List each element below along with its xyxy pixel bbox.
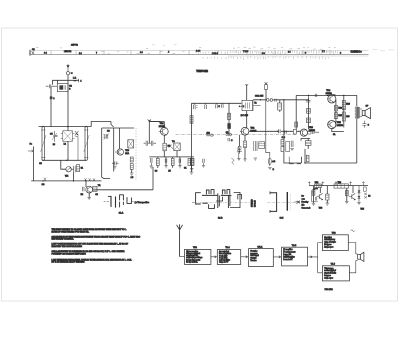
wire transformer down: [356, 119, 358, 163]
wire TR2 emitter down: [244, 135, 246, 141]
component on rail right: [364, 187, 367, 191]
svg-text:TR2: TR2: [250, 128, 255, 130]
S1-B lower rect: [216, 197, 222, 201]
antenna: [177, 224, 183, 256]
PAGE-BORDER (decorative): [2, 28, 398, 301]
wire second chain: [343, 95, 345, 127]
ground left vertical: [190, 172, 194, 174]
resistor R25: [334, 113, 337, 119]
wire inner bottom rail: [43, 159, 86, 161]
stage1 resistor: [312, 190, 315, 195]
wire input horizontal: [52, 79, 79, 81]
svg-text:TR5: TR5: [337, 122, 342, 124]
gang plate bar: [286, 192, 288, 211]
svg-text:0 4: 0 4: [44, 53, 48, 55]
diode chain ground: [357, 203, 361, 205]
resistor R31 on rail: [315, 184, 322, 188]
wire transformer to speaker: [360, 109, 362, 116]
capacitor C20: [238, 146, 240, 159]
GROUP: lower right stages: [294, 182, 370, 211]
transformer T2B on rail: [334, 184, 348, 188]
ground C14: [150, 166, 154, 168]
svg-text:0A: 0A: [333, 133, 336, 136]
mixer diode arrows: [75, 131, 79, 137]
svg-text:4-2: 4-2: [272, 161, 276, 163]
wire drop to C1: [51, 80, 53, 85]
capacitor C13: [169, 145, 173, 149]
svg-text:C: C: [368, 125, 370, 127]
svg-text:Frontby: Frontby: [302, 201, 309, 204]
svg-text:Ampl. spec: Ampl. spec: [324, 245, 333, 248]
GROUP: switch details: [104, 70, 312, 220]
wire drop to L1: [57, 80, 59, 83]
antenna jack arrow: [66, 65, 69, 68]
block T1-2: [217, 250, 240, 265]
wire IF rail left vertical: [191, 103, 193, 172]
svg-text:it act. A-OT: it act. A-OT: [283, 258, 293, 261]
resistor R18: [307, 118, 311, 123]
capacitor C17: [203, 159, 204, 166]
feedback box below TR3: [305, 141, 311, 146]
svg-text:for: for: [302, 196, 305, 198]
svg-text:18: 18: [53, 144, 56, 146]
svg-text:C2: C2: [69, 86, 72, 88]
svg-text:T1-B: T1-B: [292, 245, 297, 247]
GROUP: IF stage TR2: [237, 82, 309, 171]
dashed section divider: [135, 128, 137, 180]
dial scale strip outline: [30, 50, 31, 56]
stage1 wire verticals: [314, 186, 321, 204]
svg-text:S1: S1: [81, 168, 84, 170]
capacitor on rail 1: [194, 103, 196, 109]
svg-text:freely omit RL: freely omit RL: [186, 260, 197, 263]
arrow OSC to T1B: [273, 256, 280, 258]
speaker SP: [362, 111, 365, 116]
wire T2 to TR2: [246, 111, 248, 128]
svg-text:R31: R31: [315, 182, 318, 184]
transistor TR2: [241, 127, 249, 135]
tick marks above strip: [36, 47, 201, 50]
wire to TR1: [149, 121, 160, 123]
wire x302 mid vertical: [300, 157, 302, 163]
capacitor below arrows: [228, 138, 230, 141]
svg-text:2SA53: 2SA53: [250, 129, 257, 132]
resistor R16: [306, 155, 309, 162]
capacitor C15: [165, 157, 166, 166]
svg-text:Camera-b: Camera-b: [302, 208, 312, 210]
dial dense tick row right: [231, 47, 338, 54]
input arrow left: [294, 200, 299, 203]
resistor R21: [130, 164, 133, 170]
svg-text:TR: TR: [98, 185, 101, 187]
wire left branch: [50, 86, 52, 126]
svg-text:4: 4: [168, 52, 169, 54]
svg-text:R's: R's: [302, 205, 305, 207]
wire TRa base: [86, 181, 89, 198]
transformer T5: [356, 107, 359, 118]
svg-text:drop. to PT: drop. to PT: [219, 261, 229, 264]
coupling cap on base wire: [279, 129, 281, 133]
wire TR2 to TR3 base: [249, 130, 301, 132]
capacitor on rail 3: [216, 103, 218, 108]
svg-text:TR3: TR3: [332, 233, 337, 235]
wire TR5 bottom: [332, 95, 344, 132]
wire mid vertical x229: [228, 103, 230, 135]
svg-text:NOTE OF PUNCTUATED PTC WITH TH: NOTE OF PUNCTUATED PTC WITH THL: [52, 231, 90, 234]
resistor R5: [163, 143, 166, 151]
wire bottom rail to right: [284, 152, 302, 163]
wire AM feed bottom: [152, 167, 154, 190]
resistor R15: [281, 146, 284, 151]
GROUP: converter TR1: [144, 119, 296, 190]
svg-text:S-M: S-M: [280, 217, 284, 219]
ground C15: [164, 166, 167, 168]
transistor TR4: [328, 95, 336, 103]
stage2 ground: [345, 201, 349, 203]
svg-text:B: B: [273, 169, 275, 171]
capacitor on rail 4: [222, 103, 224, 107]
capacitor C9: [112, 161, 119, 165]
component bars right of TR3: [313, 131, 319, 134]
svg-text:V.R: V.R: [65, 175, 69, 177]
wire FM left edge: [102, 128, 110, 179]
svg-text:220: 220: [346, 116, 350, 118]
speaker block: [358, 255, 361, 260]
wire supply vertical left: [307, 98, 309, 129]
GROUP: output TR4 TR5: [296, 90, 370, 163]
squiggle mark: [351, 230, 355, 231]
wire top rail: [309, 185, 368, 187]
S1-B centerline: [195, 201, 250, 203]
svg-text:TUNF-M/2: TUNF-M/2: [196, 70, 208, 73]
stage1 load box: [326, 194, 329, 200]
wire TR3 right leads: [308, 129, 312, 134]
svg-text:4MF 52: 4MF 52: [71, 45, 79, 47]
GROUP: notes: [52, 228, 141, 263]
resistor R17: [307, 109, 311, 114]
fuse B1: [268, 158, 271, 164]
svg-text:BY IT AS BRACED ALLOY REPAIRS: BY IT AS BRACED ALLOY REPAIRS: [52, 261, 86, 264]
svg-text:FIG 1/32: FIG 1/32: [325, 289, 334, 291]
connector pair: [267, 99, 270, 102]
ground TR2 a: [237, 159, 240, 161]
wire VR feed: [61, 160, 66, 169]
svg-text:R9: R9: [81, 194, 83, 196]
svg-text:3: 3: [69, 89, 71, 91]
component box before TR3: [293, 129, 296, 134]
wire bottom rail: [31, 180, 101, 182]
stage1 ground2: [326, 203, 330, 205]
svg-text:SP: SP: [366, 106, 369, 108]
svg-text:4: 4: [80, 81, 82, 83]
svg-text:7: 7: [96, 52, 97, 54]
capacitor on rail 2: [205, 103, 207, 109]
svg-text:T1-2: T1-2: [225, 247, 230, 249]
ground FM: [130, 173, 134, 175]
svg-text:ampl. spec: ampl. spec: [324, 277, 333, 279]
svg-text:T.0: T.0: [172, 141, 176, 143]
svg-text:3 5 1 6: 3 5 1 6: [212, 53, 218, 55]
S1-B lower U: [209, 204, 215, 208]
resistor R1: [50, 96, 53, 99]
component box K: [259, 142, 265, 149]
svg-text:50 R 15: 50 R 15: [255, 200, 257, 207]
block TR1: [185, 249, 211, 264]
svg-text:C2: C2: [226, 132, 228, 134]
svg-text:C5: C5: [50, 133, 53, 135]
stage2 transistor: [349, 193, 355, 200]
svg-text:TR1: TR1: [160, 123, 165, 125]
trimmer C5: [53, 131, 57, 142]
wire link from AM box: [91, 122, 114, 128]
svg-text:STEREO: STEREO: [252, 199, 254, 207]
S1-B right step: [230, 192, 240, 207]
S1-B right verticals: [228, 195, 230, 208]
svg-text:2 6: 2 6: [140, 52, 143, 54]
wire VR down: [72, 172, 74, 181]
svg-text:R26: R26: [346, 103, 351, 105]
svg-text:S1-B: S1-B: [218, 218, 223, 220]
GROUP: FM tuner box: [91, 122, 136, 181]
wire TR3 to speaker: [348, 243, 356, 254]
wire x239 down: [239, 135, 241, 146]
S1-A contact U element: [120, 195, 124, 201]
variable capacitor VC1a: [42, 127, 44, 160]
coil box L1: [57, 83, 68, 91]
svg-text:C: C: [231, 140, 233, 142]
block T1-5: [322, 266, 349, 281]
svg-text:TR6: TR6: [125, 150, 130, 152]
stage2 resistor: [345, 190, 348, 195]
svg-text:( of Transposition: ( of Transposition: [135, 201, 150, 204]
transformer T1: [63, 131, 73, 142]
ground TR2 c: [254, 158, 257, 160]
arrow T1-2 to OSC: [241, 256, 248, 258]
S1-A contact L element: [127, 197, 131, 203]
wire antenna down: [67, 75, 69, 127]
rail tick bars: [315, 94, 317, 97]
dial X mark left: [32, 51, 35, 54]
ground battery: [268, 167, 271, 169]
gang dashed vertical: [290, 194, 292, 210]
transistor TRa below rail: [86, 186, 93, 193]
svg-text:T2: T2: [254, 102, 257, 104]
svg-text:C6: C6: [39, 163, 42, 165]
svg-text:TR6: TR6: [319, 207, 323, 209]
resistor R8 R9: [188, 158, 191, 165]
svg-text:OSC 455: OSC 455: [255, 95, 264, 97]
S1-B lead dash left: [192, 202, 195, 204]
S1-A lead dashes: [104, 201, 110, 203]
svg-text:CAMBO+: CAMBO+: [351, 50, 363, 54]
wire FM top rail: [102, 127, 134, 129]
wire left edge: [33, 147, 35, 181]
dial below-band tick row: [203, 56, 328, 59]
GROUP: AM tuner box: [28, 127, 153, 200]
svg-text:TR3: TR3: [309, 127, 314, 129]
block TR3: [322, 235, 348, 251]
node junction arrow: [148, 119, 151, 121]
wire top rail: [39, 126, 92, 128]
oscillator coil box: [174, 143, 180, 151]
resistor R14: [281, 140, 284, 146]
svg-text:L2: L2: [64, 143, 67, 145]
wire antenna to TR1: [180, 256, 185, 258]
node stub arrows: [308, 182, 310, 186]
svg-text:2SA: 2SA: [125, 152, 129, 155]
mechanical dash-dot line: [176, 134, 297, 136]
coil on left vertical: [190, 116, 193, 124]
block OSC: [249, 249, 274, 267]
capacitor C7: [71, 166, 75, 173]
wire FM mid vertical: [113, 128, 115, 172]
S1-A contact bar 1: [110, 196, 112, 207]
S1-B left bracket: [196, 193, 201, 204]
trimmer C8: [105, 134, 108, 139]
ground cap: [290, 149, 294, 151]
GROUP: dial strip: [30, 45, 394, 60]
svg-text:L R: L R: [73, 77, 77, 79]
faint dashes right of strip end: [372, 49, 394, 52]
wire FM vertical 2: [119, 128, 121, 149]
resistor R3: [77, 165, 80, 172]
svg-text:T1-5: T1-5: [331, 264, 336, 266]
gang bracket: [270, 193, 277, 212]
wire osc rail: [253, 99, 308, 101]
S1-A lead right: [132, 201, 134, 203]
resistor R6: [156, 158, 159, 165]
transistor TR3: [300, 129, 307, 136]
arrow TR1 to T1-2: [211, 256, 217, 258]
resistor on feed 2: [265, 85, 268, 90]
svg-text:TR1: TR1: [193, 247, 198, 249]
S1-B top bumps 2: [222, 190, 229, 195]
capacitor below speaker: [362, 121, 366, 128]
svg-text:Version: Version: [250, 259, 256, 262]
resistor R26: [342, 100, 345, 109]
svg-text:C9: C9: [155, 171, 157, 173]
resistor R13: [278, 103, 282, 110]
ground TRa: [87, 198, 91, 200]
svg-text:6: 6: [305, 52, 306, 54]
svg-text:1 8 0: 1 8 0: [196, 51, 200, 53]
corner wire left stage: [312, 190, 318, 202]
S1-B main band: [202, 194, 231, 196]
resistor R20: [130, 157, 133, 162]
svg-text:1 5: 1 5: [131, 177, 134, 179]
dial tick marks: [51, 50, 330, 54]
capacitor TRa base: [82, 187, 84, 191]
resistor R24: [334, 105, 337, 111]
svg-text:5 0: 5 0: [262, 53, 265, 55]
wire TR1 top: [149, 122, 164, 128]
wire cluster rail: [149, 156, 194, 158]
block T1-B: [282, 247, 308, 266]
svg-text:C: C: [218, 106, 220, 108]
wire x284 vertical: [283, 100, 285, 151]
connector plug: [70, 72, 71, 74]
GROUP: IF rail: [190, 103, 242, 174]
GROUP: driver TR3: [290, 95, 319, 163]
ground TR2 b: [243, 159, 246, 161]
battery-like component: [237, 146, 241, 153]
capacitor C14: [151, 158, 152, 166]
wire TR3 bottom to rail: [304, 149, 306, 163]
resistor on x229: [228, 113, 231, 119]
svg-text:C1: C1: [184, 167, 186, 169]
S1-B band2: [202, 202, 207, 204]
wire feed vertical: [148, 120, 150, 143]
wire TR4-TR5 bias chain: [335, 100, 337, 124]
wire feed down to fuse: [266, 100, 270, 157]
wire T2 feed: [246, 84, 248, 100]
wire T1-5 to speaker: [349, 261, 355, 273]
wire IF top rail: [192, 102, 242, 104]
wire T1 through: [67, 127, 69, 161]
svg-text:POWERUP AS BOARDS RESPONDS: POWERUP AS BOARDS RESPONDS: [52, 252, 87, 255]
component dark on x229: [227, 123, 230, 129]
svg-text:12: 12: [368, 195, 370, 197]
svg-text:OR-1: OR-1: [257, 246, 263, 248]
transformer T10: [128, 140, 134, 148]
svg-text:8: 8: [340, 53, 341, 55]
svg-text:1 3: 1 3: [79, 53, 82, 55]
ground C16: [178, 166, 181, 168]
wire R21 down: [131, 169, 133, 173]
stage2 wire verticals: [347, 186, 353, 202]
svg-text:S1-A: S1-A: [119, 212, 124, 215]
stage1 cap: [315, 197, 316, 201]
svg-text:R7: R7: [168, 171, 170, 173]
resistor on TR3 up wire: [295, 122, 298, 127]
S1-B top bumps 1: [206, 190, 214, 195]
diode chain: [358, 186, 360, 203]
node junction tick: [77, 79, 79, 83]
wire TRa collector to right: [93, 189, 153, 191]
capacitor pair C12: [144, 141, 156, 146]
transistor TR6: [117, 149, 123, 155]
stage1 transistor: [316, 193, 322, 200]
coil T3: [254, 141, 257, 151]
svg-text:2SB56: 2SB56: [337, 125, 344, 127]
component after connector: [275, 99, 276, 102]
capacitor left of box: [291, 141, 293, 147]
svg-text:Fo: Fo: [30, 144, 33, 146]
svg-text:7 24 8: 7 24 8: [243, 51, 248, 53]
wire TR3 collector up: [295, 95, 297, 129]
connector J1: [66, 72, 69, 75]
svg-text:con: con: [302, 199, 305, 201]
resistor R7: [171, 158, 174, 165]
wire R5 drop: [164, 151, 177, 157]
resistor R27: [342, 112, 345, 121]
ground R9: [190, 169, 194, 171]
S1-B right bump: [238, 194, 242, 199]
coupling box TRa: [93, 186, 97, 191]
wire T1B out split: [308, 256, 318, 258]
svg-text:LINE 52: LINE 52: [64, 51, 72, 53]
wire bottom rail right: [305, 162, 357, 164]
resistor cluster left vertical: [190, 158, 193, 165]
svg-text:4Ω2: 4Ω2: [206, 132, 209, 134]
capacitor C25 top: [306, 95, 311, 102]
dark component on rail: [314, 188, 318, 190]
GROUP: block diagram: [177, 224, 364, 291]
svg-text:C8: C8: [95, 194, 97, 196]
gang centerline: [267, 201, 297, 203]
wire to transformer: [356, 95, 358, 106]
S1-B mid verticals: [218, 193, 220, 208]
